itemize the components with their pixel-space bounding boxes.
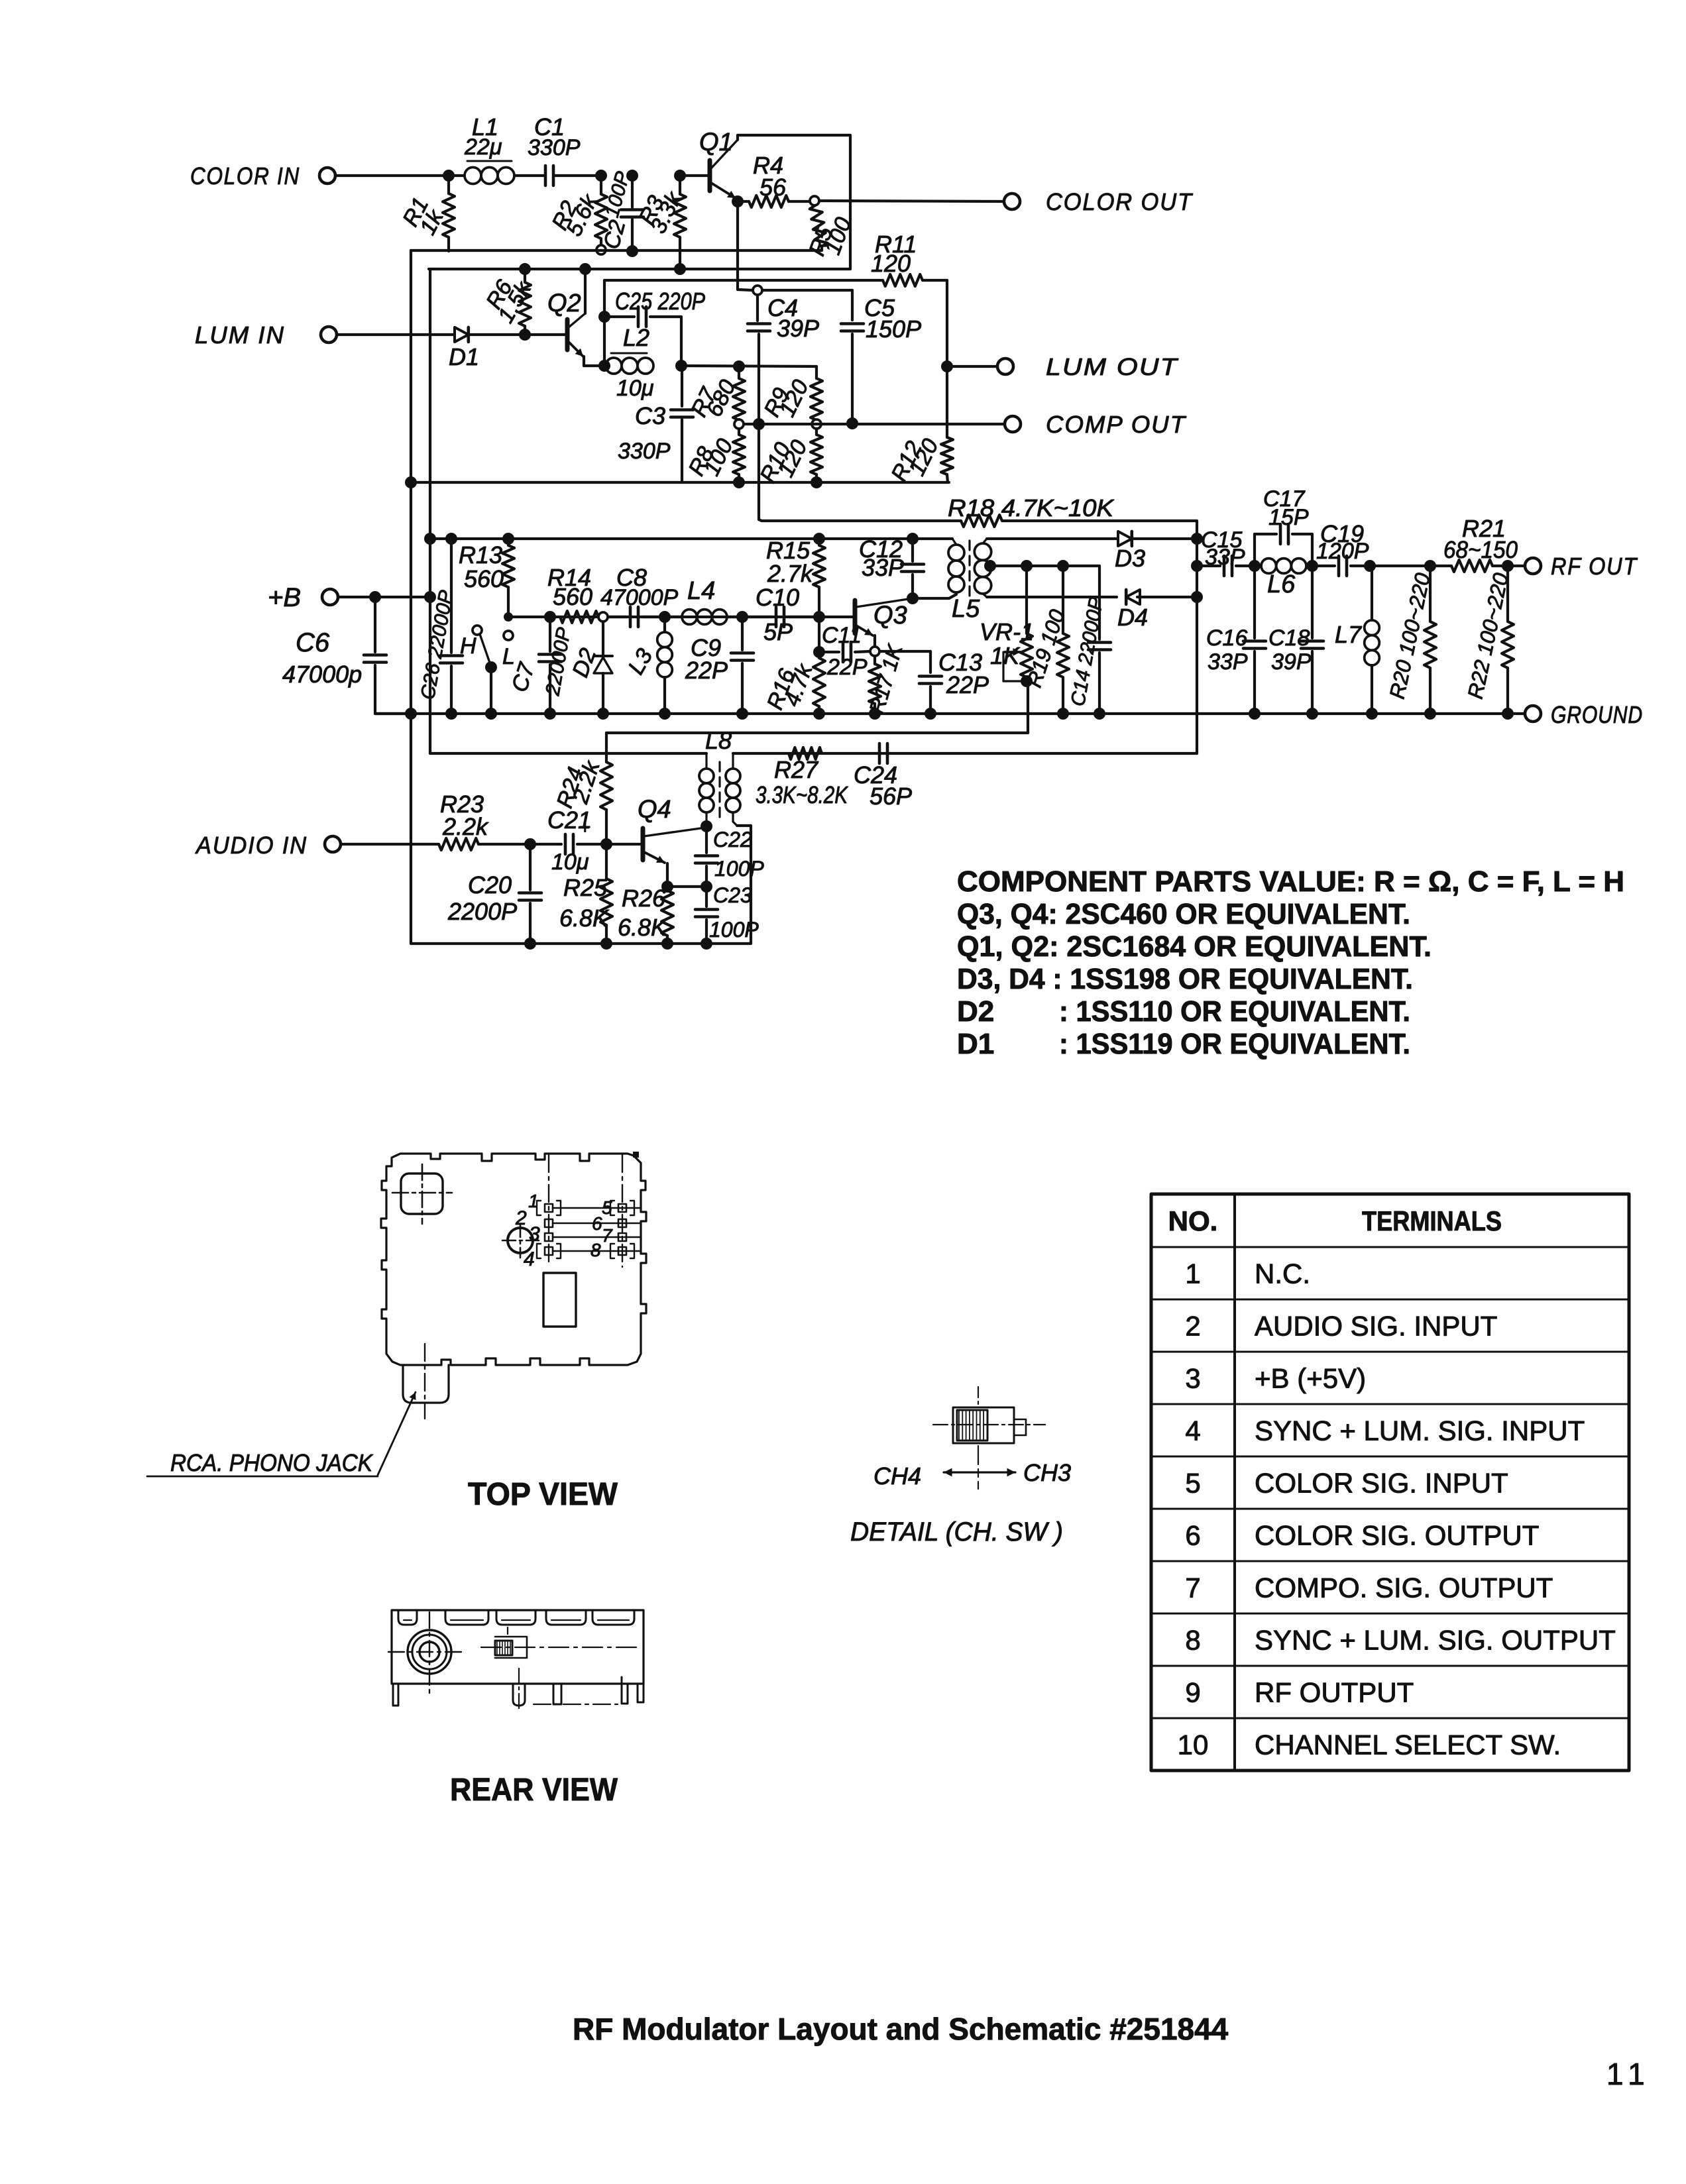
- node GROUND terminal: [1525, 706, 1541, 722]
- svg-text:15P: 15P: [1268, 505, 1309, 530]
- svg-text:C10: C10: [756, 584, 799, 611]
- resistor R14: [560, 611, 598, 623]
- audio ground rail: [411, 942, 751, 945]
- svg-text:22P: 22P: [946, 671, 989, 698]
- resistor R16: [818, 617, 820, 658]
- capacitor C21: [530, 843, 561, 846]
- capacitor C18: [1311, 566, 1314, 638]
- resistor R8: [738, 429, 740, 435]
- node LUM OUT terminal: [997, 358, 1013, 374]
- wire R11 corner down: [946, 280, 948, 366]
- svg-text:1K: 1K: [990, 642, 1021, 669]
- svg-text:VR-1: VR-1: [980, 618, 1034, 645]
- svg-text:4: 4: [1185, 1415, 1200, 1447]
- node C12 top: [907, 533, 919, 545]
- svg-text:5: 5: [602, 1197, 612, 1218]
- node R24 bottom: [600, 838, 612, 850]
- capacitor C25: [604, 315, 634, 318]
- capacitor C17: [1253, 534, 1256, 566]
- capacitor C20: [529, 844, 532, 890]
- svg-text:39P: 39P: [1271, 649, 1312, 675]
- svg-text:4: 4: [524, 1248, 535, 1270]
- node +B top rail: [424, 533, 436, 545]
- svg-text:33P: 33P: [1208, 649, 1248, 675]
- svg-text:33P: 33P: [1205, 545, 1245, 570]
- node C23 bottom: [701, 938, 712, 950]
- svg-text:47000p: 47000p: [282, 661, 362, 688]
- wire D4 row: [987, 596, 1117, 598]
- svg-text:1: 1: [1185, 1258, 1200, 1289]
- capacitor C19: [1312, 565, 1335, 567]
- svg-text:R18 4.7K~10K: R18 4.7K~10K: [948, 494, 1115, 521]
- node C5 bottom: [846, 417, 858, 429]
- node +B terminal: [322, 589, 338, 605]
- transformer L5 secondary: [974, 543, 991, 560]
- pin 3 (R14 right): [598, 612, 608, 622]
- wire AUDIO IN: [341, 843, 439, 846]
- node R6 top: [519, 263, 531, 275]
- transformer L8 primary: [705, 753, 707, 769]
- svg-text:CH3: CH3: [1023, 1459, 1071, 1486]
- rf row to R21: [1370, 565, 1451, 567]
- svg-text:R26: R26: [622, 885, 666, 912]
- wire R18 feed riser: [758, 424, 760, 519]
- node L6 right: [1306, 560, 1318, 572]
- switch arm CH select: [480, 634, 491, 667]
- capacitor C23: [705, 887, 708, 906]
- DETAIL channel switch drawing: [953, 1407, 1014, 1443]
- svg-text:68~150: 68~150: [1443, 536, 1518, 563]
- node C6 top: [369, 591, 381, 603]
- svg-text:D4: D4: [1117, 604, 1148, 631]
- node VR-1 top: [1021, 560, 1033, 572]
- node D2 bottom: [597, 708, 609, 720]
- svg-text:COLOR SIG. OUTPUT: COLOR SIG. OUTPUT: [1255, 1520, 1539, 1551]
- wire LUM IN to D1: [337, 333, 456, 336]
- svg-text:56: 56: [759, 174, 787, 201]
- node pole ground: [485, 708, 497, 720]
- svg-text:8: 8: [1185, 1625, 1200, 1656]
- diode D2: [602, 622, 604, 655]
- resistor R25: [605, 844, 608, 879]
- resistor R2: [600, 176, 602, 194]
- rail3 +B color section: [429, 268, 850, 270]
- node C20 top: [524, 838, 536, 850]
- pin L contact: [504, 631, 513, 640]
- node L3 bottom: [659, 708, 671, 720]
- svg-text:Q2: Q2: [547, 290, 581, 317]
- svg-text:TERMINALS: TERMINALS: [1362, 1205, 1502, 1236]
- svg-text:22μ: 22μ: [464, 135, 502, 160]
- svg-text:6.8K: 6.8K: [559, 904, 610, 932]
- node R3 bottom: [674, 263, 686, 275]
- diode D3: [1118, 531, 1132, 546]
- node R20 top: [1424, 560, 1436, 572]
- svg-text:2: 2: [515, 1207, 527, 1229]
- svg-text:39P: 39P: [777, 315, 819, 342]
- svg-text:COLOR SIG. INPUT: COLOR SIG. INPUT: [1255, 1468, 1508, 1499]
- node R6 bottom: [519, 329, 531, 341]
- diode D4: [1126, 590, 1140, 604]
- svg-text:3: 3: [529, 1223, 540, 1245]
- wire to COLOR OUT: [819, 201, 1004, 201]
- svg-text:47000P: 47000P: [600, 585, 679, 610]
- svg-text:NO.: NO.: [1168, 1205, 1218, 1236]
- node R17 bottom: [869, 708, 881, 720]
- resistor R11: [883, 274, 923, 286]
- svg-text:C16: C16: [1206, 626, 1247, 651]
- svg-text:C18: C18: [1268, 626, 1310, 651]
- REAR VIEW module drawing: [392, 1610, 644, 1684]
- capacitor C22: [705, 826, 708, 853]
- node LUM IN terminal: [321, 327, 337, 343]
- +B spine vertical: [429, 269, 431, 753]
- svg-text:3.3K~8.2K: 3.3K~8.2K: [756, 781, 849, 808]
- rail2 color ground: [411, 249, 822, 252]
- L5 tap row: [990, 565, 1099, 567]
- inductor L4: [665, 616, 682, 618]
- node C2 top: [626, 170, 638, 182]
- svg-text:7: 7: [1185, 1572, 1200, 1604]
- node Q2 collector rail3: [579, 263, 591, 275]
- node R2 top: [595, 170, 607, 182]
- node color-in junction: [443, 170, 455, 182]
- node R22 top: [1502, 560, 1514, 572]
- node C22 bottom: [701, 881, 712, 893]
- capacitor C2: [631, 176, 634, 207]
- audio +B line: [430, 752, 706, 755]
- node R3 top: [674, 170, 686, 182]
- wire Q2 base: [525, 333, 565, 336]
- node switch pole: [485, 661, 497, 673]
- resistor R24: [605, 733, 608, 762]
- node R19 bottom: [1057, 708, 1069, 720]
- node C7 top: [544, 611, 556, 623]
- node RF OUT terminal: [1525, 558, 1541, 574]
- wire +B feed: [338, 596, 430, 598]
- svg-text:D1: D1: [449, 343, 479, 370]
- svg-text:56P: 56P: [870, 783, 912, 810]
- svg-text:5: 5: [1185, 1468, 1200, 1499]
- wire emitter link: [667, 885, 706, 888]
- node C15 row: [1191, 560, 1203, 572]
- node spine lum rail: [405, 476, 417, 488]
- node C16 bottom: [1249, 708, 1261, 720]
- capacitor C7: [549, 617, 551, 651]
- resistor R1: [447, 176, 450, 193]
- wire D3 row: [987, 537, 1118, 540]
- capacitor C15: [1197, 565, 1220, 567]
- transformer L5 core: [968, 541, 970, 596]
- capacitor C14: [1098, 566, 1101, 639]
- node Q3 base: [813, 611, 825, 623]
- svg-text:10μ: 10μ: [551, 849, 589, 875]
- svg-text:D2: D2: [957, 995, 994, 1028]
- svg-text:L8: L8: [705, 727, 732, 754]
- svg-text:2: 2: [1185, 1311, 1200, 1342]
- svg-text:10: 10: [1178, 1729, 1209, 1761]
- node L2 left: [598, 360, 610, 372]
- node R26 bottom: [661, 938, 673, 950]
- node C9 bottom: [736, 708, 748, 720]
- node L6 left: [1249, 560, 1261, 572]
- diode D1: [455, 327, 469, 342]
- wire Q1 emitter drop: [736, 201, 739, 290]
- svg-text:7: 7: [602, 1225, 613, 1246]
- wire Q4 base: [606, 843, 641, 846]
- svg-text:C23: C23: [713, 883, 752, 907]
- svg-text:6: 6: [592, 1213, 602, 1234]
- svg-text:AUDIO IN: AUDIO IN: [195, 832, 308, 859]
- node C20 bottom: [524, 938, 536, 950]
- node R15 top: [813, 533, 825, 545]
- node C9 top: [736, 611, 748, 623]
- resistor R15: [818, 539, 820, 545]
- svg-text:LUM OUT: LUM OUT: [1046, 353, 1179, 380]
- osc top rail: [430, 537, 952, 540]
- svg-text:L5: L5: [952, 595, 980, 623]
- svg-text:330P: 330P: [618, 439, 671, 464]
- svg-text:22P: 22P: [685, 657, 728, 684]
- svg-text:H: H: [460, 633, 477, 659]
- wire Q2 collector: [584, 269, 587, 313]
- transformer L8 core: [718, 762, 720, 818]
- node Q4 collector: [701, 820, 712, 832]
- svg-text:LUM IN: LUM IN: [195, 321, 285, 349]
- potentiometer VR-1: [1025, 566, 1028, 633]
- node LUM OUT junction: [941, 360, 953, 372]
- svg-text:REAR VIEW: REAR VIEW: [450, 1773, 618, 1808]
- node C11 left: [813, 646, 825, 658]
- svg-text:DETAIL (CH. SW ): DETAIL (CH. SW ): [850, 1517, 1063, 1547]
- capacitor C11: [819, 651, 839, 653]
- node L3 top: [659, 611, 671, 623]
- svg-text:L4: L4: [687, 577, 715, 605]
- svg-text:R25: R25: [563, 874, 608, 901]
- svg-text:2200P: 2200P: [447, 898, 517, 925]
- transistor Q4: [641, 828, 646, 860]
- node Q3 collector: [907, 592, 919, 604]
- capacitor C3: [681, 366, 683, 406]
- wire Q1 box right edge: [849, 135, 852, 269]
- svg-text:8: 8: [590, 1240, 601, 1260]
- resistor R12: [946, 366, 948, 437]
- transistor Q1: [708, 160, 712, 191]
- node COLOR OUT terminal: [1004, 193, 1020, 209]
- node VR-1 bottom: [1021, 675, 1033, 687]
- svg-text:R27: R27: [774, 756, 819, 783]
- node spine osc rail: [405, 708, 417, 720]
- resistor R21: [1451, 560, 1492, 572]
- svg-text:: 1SS119 OR EQUIVALENT.: : 1SS119 OR EQUIVALENT.: [1059, 1028, 1410, 1060]
- osc ground rail: [375, 712, 1525, 715]
- pin 9 (Q3 emitter): [873, 635, 876, 647]
- svg-text:C20: C20: [468, 871, 512, 899]
- svg-text:+B: +B: [268, 583, 301, 612]
- svg-text:COMPONENT PARTS VALUE: R = Ω,: COMPONENT PARTS VALUE: R = Ω, C = F, L =…: [957, 865, 1624, 898]
- resistor R5: [810, 205, 828, 246]
- node R20 bottom: [1424, 708, 1436, 720]
- svg-text:C6: C6: [296, 628, 330, 657]
- svg-text:5P: 5P: [763, 618, 793, 645]
- svg-text:120P: 120P: [1316, 539, 1369, 564]
- node Q1 emitter: [732, 195, 744, 207]
- node L7 bottom: [1366, 708, 1378, 720]
- svg-text:6.8K: 6.8K: [618, 914, 668, 941]
- transformer L5 primary: [949, 594, 956, 598]
- lum section ground rail: [411, 481, 949, 484]
- diode bus vertical: [1196, 521, 1198, 753]
- capacitor C16: [1253, 566, 1256, 638]
- svg-text:+B (+5V): +B (+5V): [1255, 1363, 1366, 1394]
- node R19 top: [1057, 560, 1069, 572]
- node C19 right: [1364, 560, 1376, 572]
- svg-text:L6: L6: [1267, 571, 1296, 598]
- svg-text:22P: 22P: [826, 655, 868, 680]
- resistor R7: [738, 366, 740, 378]
- svg-text:RF OUTPUT: RF OUTPUT: [1255, 1677, 1414, 1708]
- svg-text:Q1: Q1: [699, 129, 733, 156]
- node R13 bottom: [504, 612, 513, 622]
- wire to LUM OUT: [947, 365, 997, 368]
- svg-text:C3: C3: [635, 402, 665, 429]
- node R8 bottom: [733, 476, 745, 488]
- pin 8 (R9/R10 junction): [812, 419, 821, 429]
- svg-text:1: 1: [528, 1191, 539, 1211]
- wire collector to L5: [913, 597, 949, 600]
- transistor Q2: [565, 319, 570, 350]
- svg-text:11: 11: [1606, 2057, 1652, 2091]
- wire Q1 base: [680, 174, 708, 177]
- resistor R17: [873, 656, 876, 664]
- node R10 bottom: [811, 476, 822, 488]
- svg-text:100P: 100P: [714, 857, 764, 881]
- capacitor C13: [919, 675, 942, 678]
- node R13 top: [502, 533, 514, 545]
- terminals table: [1151, 1194, 1629, 1771]
- resistor R19: [1062, 566, 1064, 633]
- svg-text:RF OUT: RF OUT: [1551, 553, 1638, 580]
- resistor R23: [439, 838, 478, 850]
- inductor L3: [663, 617, 666, 632]
- node C13 bottom: [925, 708, 936, 720]
- node C26 bottom: [445, 708, 457, 720]
- capacitor C6: [374, 597, 376, 652]
- node C4 bottom: [753, 418, 765, 430]
- node COLOR IN terminal: [319, 168, 335, 184]
- node D4 out: [1191, 591, 1203, 603]
- node C25 left: [598, 311, 610, 323]
- svg-text:120: 120: [871, 250, 911, 277]
- node R22 bottom: [1502, 708, 1514, 720]
- capacitor C1: [514, 174, 544, 177]
- pin 6 (R4 right): [810, 196, 819, 205]
- capacitor C12: [911, 539, 914, 561]
- capacitor C24: [878, 743, 881, 763]
- svg-text:COLOR IN: COLOR IN: [190, 162, 300, 190]
- node R25 bottom: [600, 938, 612, 950]
- wire COLOR IN to R1 node: [335, 174, 445, 177]
- svg-text:Q1, Q2: 2SC1684 OR EQUIVALENT.: Q1, Q2: 2SC1684 OR EQUIVALENT.: [957, 930, 1432, 963]
- node AUDIO IN terminal: [325, 836, 341, 852]
- capacitor C9: [741, 617, 744, 650]
- transistor Q3: [853, 600, 858, 633]
- audio +B line right: [733, 752, 1197, 755]
- svg-text:TOP VIEW: TOP VIEW: [468, 1477, 618, 1512]
- resistor R4: [738, 200, 749, 203]
- node R7 top: [733, 360, 745, 372]
- svg-text:D1: D1: [957, 1028, 994, 1060]
- wire emitter to C13: [879, 650, 930, 653]
- wire emitter feedback riser: [603, 280, 606, 366]
- capacitor C8: [608, 616, 626, 618]
- svg-text:6: 6: [1185, 1520, 1200, 1551]
- svg-text:SYNC + LUM. SIG. INPUT: SYNC + LUM. SIG. INPUT: [1255, 1415, 1585, 1447]
- svg-text:RCA. PHONO JACK: RCA. PHONO JACK: [170, 1449, 374, 1476]
- osc mid row: [508, 616, 853, 618]
- svg-text:Q4: Q4: [638, 796, 671, 824]
- svg-text:9: 9: [1185, 1677, 1200, 1708]
- svg-text:330P: 330P: [528, 135, 581, 160]
- wire to RF OUT: [1508, 565, 1525, 567]
- comp out row: [744, 423, 1005, 425]
- wire C4 C5 feed: [762, 289, 852, 292]
- resistor R26: [666, 887, 669, 891]
- inductor L1: [449, 174, 465, 177]
- svg-text:3: 3: [1185, 1363, 1200, 1394]
- transformer L8 secondary: [732, 753, 734, 769]
- node L5 tap: [984, 560, 996, 572]
- svg-text:L: L: [502, 644, 515, 669]
- capacitor C4: [756, 295, 759, 321]
- svg-text:2.7k: 2.7k: [767, 560, 814, 587]
- svg-text:L2: L2: [623, 324, 649, 351]
- svg-text:Q3: Q3: [873, 602, 907, 629]
- pin 5 (R2 bottom): [596, 245, 606, 254]
- resistor R6: [524, 269, 526, 282]
- node D3 out: [1191, 533, 1203, 545]
- svg-text:L7: L7: [1335, 621, 1363, 648]
- svg-text:D3: D3: [1115, 545, 1145, 572]
- node COMP OUT terminal: [1005, 416, 1021, 432]
- svg-text:N.C.: N.C.: [1255, 1258, 1310, 1289]
- svg-text:10μ: 10μ: [616, 376, 654, 401]
- svg-text:2.2k: 2.2k: [442, 813, 489, 840]
- inductor L6: [1261, 559, 1276, 574]
- inductor L2: [606, 358, 622, 374]
- ground spine vertical: [410, 250, 412, 944]
- svg-text:560: 560: [464, 565, 504, 592]
- node C7 bottom: [544, 708, 556, 720]
- resistor R10: [815, 429, 818, 435]
- node C26 top: [445, 533, 457, 545]
- TOP VIEW module drawing: [381, 1154, 646, 1365]
- node C14 bottom: [1094, 708, 1105, 720]
- svg-text:150P: 150P: [866, 315, 921, 343]
- inductor L7: [1371, 566, 1373, 620]
- capacitor C10: [742, 616, 772, 618]
- wire L2 row to R7 R9: [681, 366, 816, 366]
- svg-text:CHANNEL SELECT SW.: CHANNEL SELECT SW.: [1255, 1729, 1561, 1761]
- pin 4 (C4 node): [753, 286, 762, 295]
- resistor R22: [1506, 566, 1509, 622]
- svg-text:AUDIO SIG. INPUT: AUDIO SIG. INPUT: [1255, 1311, 1497, 1342]
- capacitor C26: [450, 539, 453, 653]
- svg-text:560: 560: [553, 583, 592, 610]
- emitter line to R11: [604, 279, 883, 282]
- node Q4 emitter junction: [661, 881, 673, 893]
- capacitor C5: [841, 322, 864, 325]
